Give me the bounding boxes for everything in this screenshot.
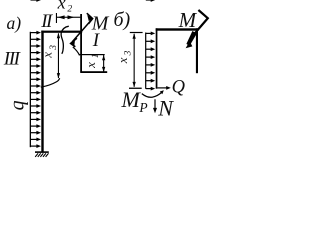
axial force N arrow [154, 99, 155, 109]
moment MP arc [142, 92, 162, 97]
dimension x1 bottom arrow [102, 67, 105, 72]
moment M arrow bottom head (a) [71, 38, 77, 47]
column segment (b) [156, 28, 158, 88]
dimension x2 left tick [56, 13, 57, 23]
dimension x2 left arrow [58, 15, 65, 19]
svg-text:а): а) [7, 13, 22, 33]
column (frame a) [41, 31, 43, 152]
svg-text:x: x [83, 62, 98, 69]
right member (b) [196, 28, 198, 73]
svg-text:x: x [115, 57, 130, 64]
distributed load q tails line (a) [30, 32, 31, 147]
moment M arrow bottom head (b) [186, 41, 193, 48]
svg-text:3: 3 [49, 45, 59, 51]
section I bottom extension line / member end [80, 71, 107, 73]
beam (frame a) [41, 31, 82, 33]
moment M arrow top chevron (a) [87, 13, 93, 24]
right member (frame a) [80, 14, 82, 73]
dimension x3 top tick (b) [130, 32, 143, 33]
svg-text:1: 1 [91, 53, 101, 58]
dimension x1 top arrow [102, 55, 105, 60]
moment M arrow shaft (a) [72, 19, 92, 42]
svg-text:M: M [178, 8, 198, 32]
load tails line (b) [145, 33, 146, 89]
dimension x2 line [57, 17, 81, 18]
svg-text:б): б) [114, 9, 131, 31]
section III cut line [41, 78, 60, 87]
section I cut squiggle [73, 47, 80, 56]
shear force Q arrow [157, 87, 167, 88]
moment M arrow top chevron (b) [198, 10, 207, 29]
svg-text:q: q [7, 100, 29, 110]
svg-text:3: 3 [124, 50, 134, 56]
dimension x3 bottom arrow (a) [57, 73, 60, 78]
svg-text:Q: Q [172, 78, 186, 98]
section I top extension line [79, 54, 105, 55]
section II cut squiggle [61, 26, 69, 54]
load arrows (b) [146, 0, 155, 2]
dimension x3 top arrow (b) [133, 33, 136, 38]
dimension x3 bottom tick (b) [129, 88, 142, 89]
dimension x3 bottom arrow (b) [133, 82, 136, 87]
beam (b) [156, 28, 199, 30]
dimension x1 line [103, 55, 104, 73]
fixed support hatching [35, 153, 48, 157]
moment MP arc arrowhead [160, 90, 164, 94]
dimension x2 right arrow [68, 15, 75, 19]
svg-text:N: N [157, 96, 174, 121]
moment M arrow shaft (b) [195, 20, 207, 33]
dimension x3 line (a) [58, 33, 59, 78]
svg-text:x: x [40, 52, 55, 59]
dimension x3 line (b) [134, 34, 135, 87]
fixed support ground line [35, 151, 49, 153]
distributed load q arrows (a) [31, 0, 42, 2]
dimension x3 top arrow (a) [57, 33, 60, 38]
